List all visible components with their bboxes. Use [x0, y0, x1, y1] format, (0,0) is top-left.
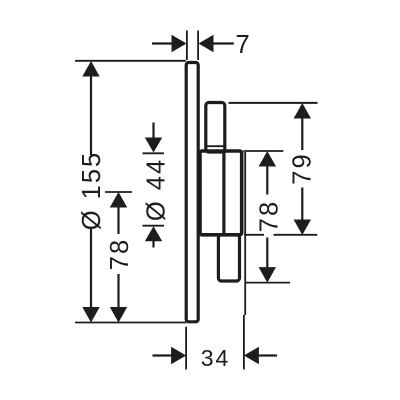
- wire: extension line bottom spigot bottom (78R bottom): [246, 282, 291, 284]
- svg-text:79: 79: [288, 152, 316, 184]
- svg-text:78: 78: [255, 200, 283, 232]
- bottom spigot: [218, 235, 239, 281]
- joint line in top spigot: [206, 145, 225, 147]
- top spigot: [206, 103, 225, 153]
- valve body: [200, 151, 242, 235]
- dimension line 78 left: [105, 192, 132, 323]
- wire: extension line 34 right, from body corner down: [244, 152, 246, 315]
- dimension line 79: [294, 103, 311, 235]
- wire: extension line body bottom right (79 bottom): [244, 234, 264, 236]
- svg-text:34: 34: [201, 345, 231, 371]
- dimension line O44: [143, 123, 165, 248]
- wire: extension line body top right (78R top): [243, 150, 283, 152]
- svg-text:Ø 155: Ø 155: [78, 151, 106, 230]
- wire: extension line from top spigot (79 top): [229, 102, 318, 104]
- dimension 7 (top): [152, 31, 234, 61]
- wire: extension line bottom-left (plate bottom): [75, 322, 186, 324]
- cartridge line inside body: [222, 152, 225, 233]
- dimension 34 (bottom): [153, 315, 278, 370]
- svg-text:78: 78: [106, 238, 134, 270]
- dimension line 78 right: [259, 151, 276, 283]
- svg-text:Ø 44: Ø 44: [142, 158, 170, 221]
- wire: extension line top-left (plate top): [75, 60, 186, 62]
- cover plate: [186, 63, 198, 322]
- dimension line O155: [82, 61, 99, 323]
- svg-text:7: 7: [236, 31, 252, 59]
